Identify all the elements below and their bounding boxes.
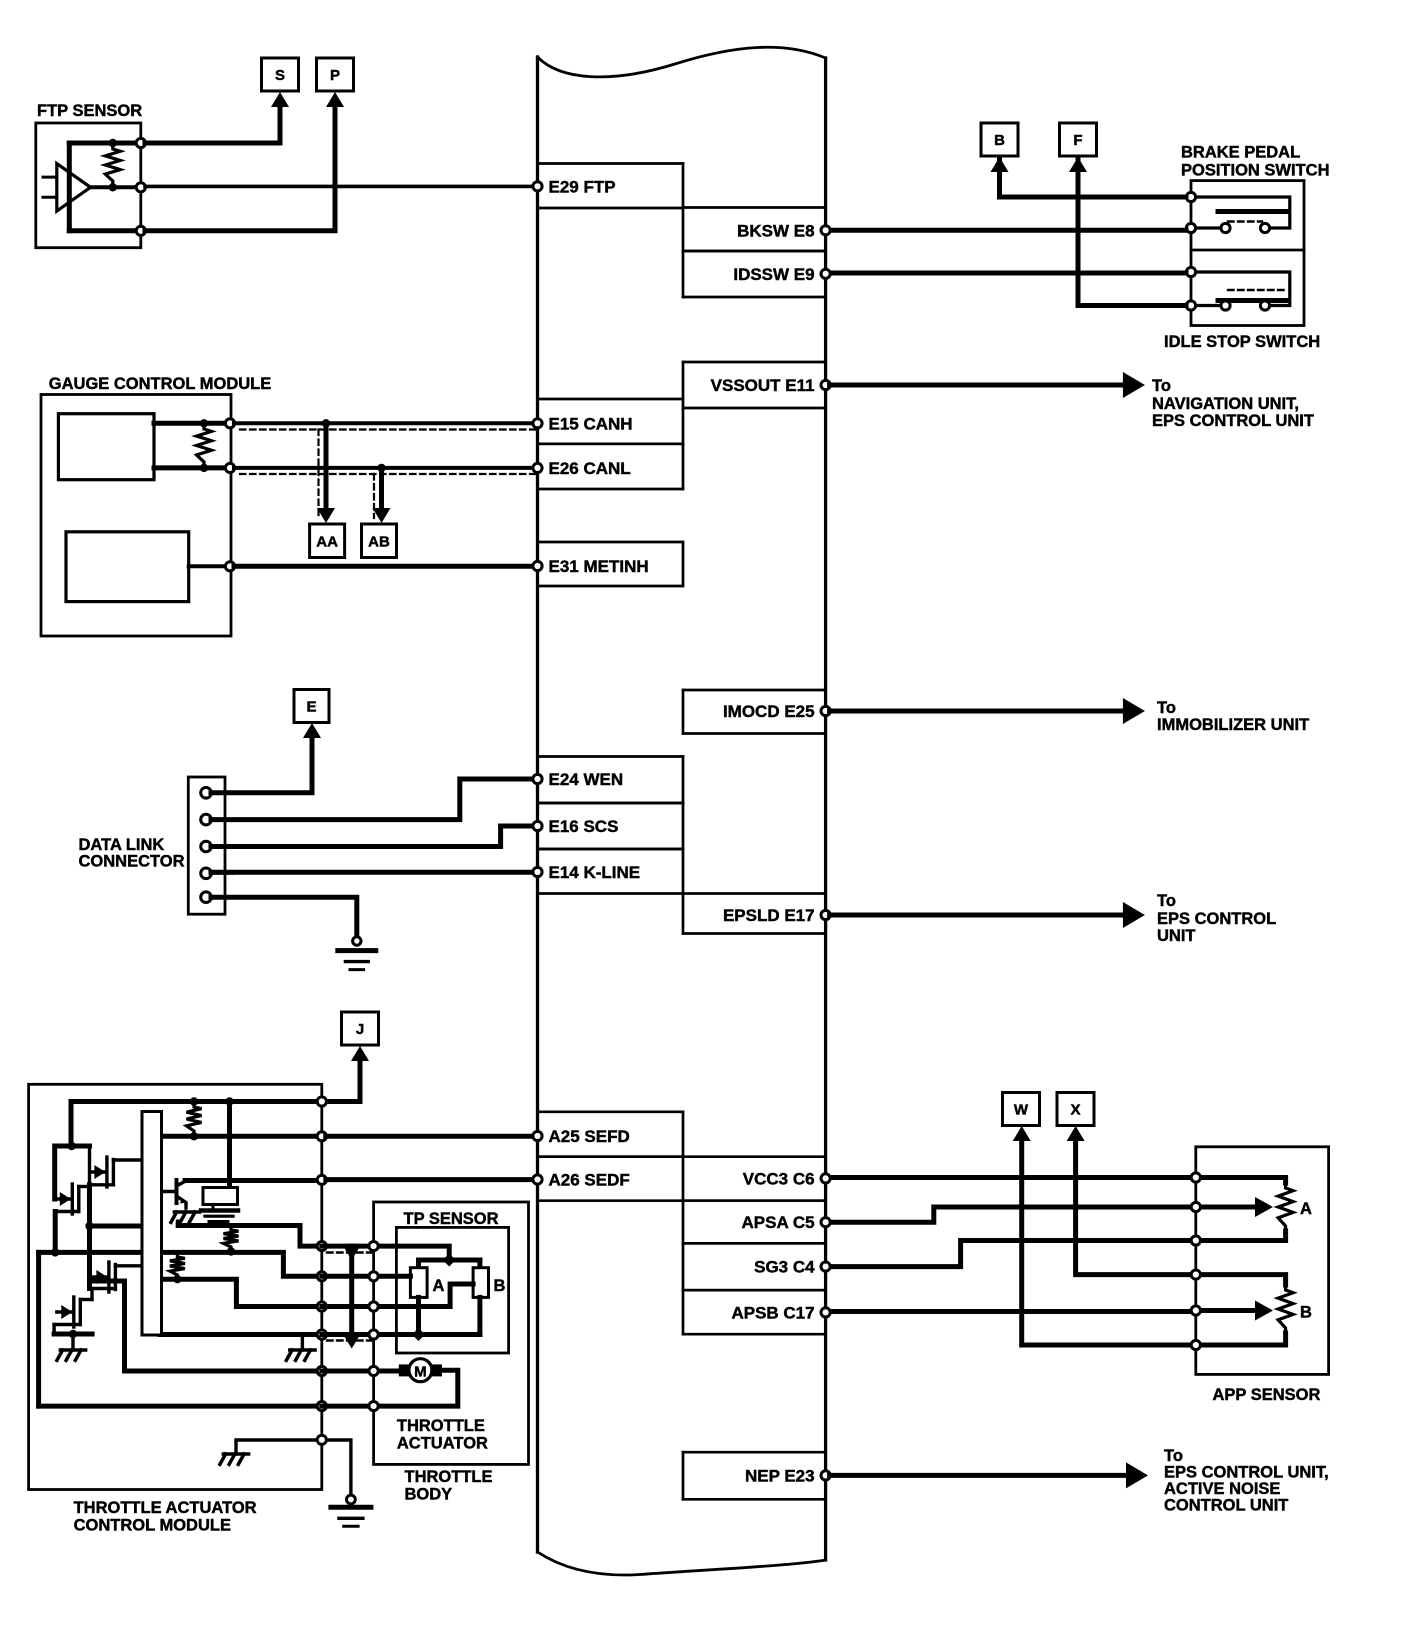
svg-text:E14 K-LINE: E14 K-LINE [549,863,641,882]
svg-text:ACTIVE NOISE: ACTIVE NOISE [1164,1480,1280,1498]
svg-text:BRAKE PEDAL: BRAKE PEDAL [1181,144,1300,162]
svg-text:APP SENSOR: APP SENSOR [1213,1386,1321,1404]
svg-text:E16 SCS: E16 SCS [549,817,619,836]
svg-text:A: A [1300,1200,1312,1218]
svg-text:To: To [1152,377,1171,395]
svg-text:B: B [994,132,1005,149]
svg-text:POSITION SWITCH: POSITION SWITCH [1181,162,1330,180]
svg-text:THROTTLE: THROTTLE [405,1468,493,1486]
svg-text:E29 FTP: E29 FTP [549,177,616,196]
svg-text:E24 WEN: E24 WEN [549,770,624,789]
svg-text:M: M [414,1363,427,1380]
svg-text:CONTROL UNIT: CONTROL UNIT [1164,1497,1288,1515]
svg-text:AA: AA [316,533,338,550]
svg-text:BODY: BODY [405,1486,453,1504]
svg-text:AB: AB [368,533,390,550]
svg-text:F: F [1073,132,1082,149]
svg-text:APSB C17: APSB C17 [731,1303,814,1322]
svg-text:B: B [1300,1304,1312,1322]
svg-text:UNIT: UNIT [1157,927,1196,945]
svg-text:A26 SEDF: A26 SEDF [549,1171,630,1190]
svg-text:IDSSW E9: IDSSW E9 [733,265,814,284]
svg-text:APSA C5: APSA C5 [742,1213,815,1232]
svg-text:EPS CONTROL UNIT: EPS CONTROL UNIT [1152,412,1314,430]
svg-text:A25 SEFD: A25 SEFD [549,1127,630,1146]
svg-text:FTP SENSOR: FTP SENSOR [37,102,142,120]
svg-text:THROTTLE: THROTTLE [397,1417,485,1435]
svg-text:P: P [330,67,340,84]
svg-text:DATA LINK: DATA LINK [79,836,165,854]
svg-text:GAUGE CONTROL MODULE: GAUGE CONTROL MODULE [49,375,271,393]
svg-text:CONTROL MODULE: CONTROL MODULE [74,1517,231,1535]
svg-text:X: X [1070,1102,1080,1119]
svg-text:A: A [433,1277,445,1295]
svg-text:E: E [306,699,316,716]
svg-text:J: J [356,1021,364,1038]
svg-text:NEP E23: NEP E23 [745,1466,815,1485]
svg-text:CONNECTOR: CONNECTOR [79,853,185,871]
svg-text:VSSOUT E11: VSSOUT E11 [711,376,815,395]
svg-text:IDLE STOP SWITCH: IDLE STOP SWITCH [1164,333,1320,351]
svg-text:ACTUATOR: ACTUATOR [397,1435,488,1453]
svg-text:IMMOBILIZER UNIT: IMMOBILIZER UNIT [1157,716,1309,734]
svg-text:E26 CANL: E26 CANL [549,459,631,478]
svg-text:IMOCD E25: IMOCD E25 [723,702,815,721]
svg-text:W: W [1014,1102,1029,1119]
svg-text:BKSW E8: BKSW E8 [737,221,814,240]
svg-text:VCC3 C6: VCC3 C6 [743,1169,815,1188]
svg-text:E15 CANH: E15 CANH [549,414,633,433]
svg-text:EPSLD E17: EPSLD E17 [723,906,815,925]
svg-text:NAVIGATION UNIT,: NAVIGATION UNIT, [1152,395,1299,413]
svg-text:To: To [1164,1447,1183,1465]
svg-text:EPS CONTROL: EPS CONTROL [1157,910,1276,928]
svg-text:S: S [275,67,285,84]
svg-text:To: To [1157,892,1176,910]
svg-text:EPS CONTROL UNIT,: EPS CONTROL UNIT, [1164,1464,1329,1482]
svg-text:THROTTLE ACTUATOR: THROTTLE ACTUATOR [74,1499,257,1517]
svg-text:E31 METINH: E31 METINH [549,557,649,576]
svg-text:B: B [494,1277,506,1295]
svg-text:TP SENSOR: TP SENSOR [404,1210,499,1228]
svg-text:To: To [1157,699,1176,717]
svg-text:SG3 C4: SG3 C4 [754,1258,815,1277]
